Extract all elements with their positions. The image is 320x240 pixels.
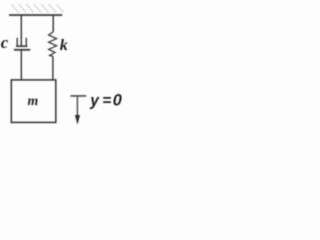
- damper upper rod (wire): [20, 15, 22, 46]
- ceiling hatching: [11, 4, 64, 12]
- damper c : cylinder left wall: [16, 38, 18, 47]
- ceiling line: [9, 14, 62, 16]
- svg-text:c: c: [1, 33, 9, 52]
- damper c : cylinder right wall: [25, 38, 27, 47]
- mass block m: [11, 80, 56, 123]
- svg-text:y: y: [89, 93, 100, 110]
- svg-text:m: m: [28, 93, 39, 108]
- spring k zigzag: [49, 32, 57, 57]
- arrowhead: [75, 115, 80, 125]
- svg-text:=: =: [102, 93, 111, 110]
- damper lower rod (wire): [20, 50, 22, 80]
- label y = 0: [89, 92, 122, 110]
- datum bar: [70, 95, 86, 97]
- svg-text:k: k: [60, 37, 68, 54]
- damper c : piston plate: [16, 45, 27, 47]
- spring upper lead (wire): [52, 15, 54, 32]
- damper c : cylinder bottom plate: [14, 49, 30, 51]
- arrow shaft: [76, 96, 78, 118]
- spring lower lead (wire): [52, 56, 54, 80]
- svg-text:0: 0: [113, 92, 122, 110]
